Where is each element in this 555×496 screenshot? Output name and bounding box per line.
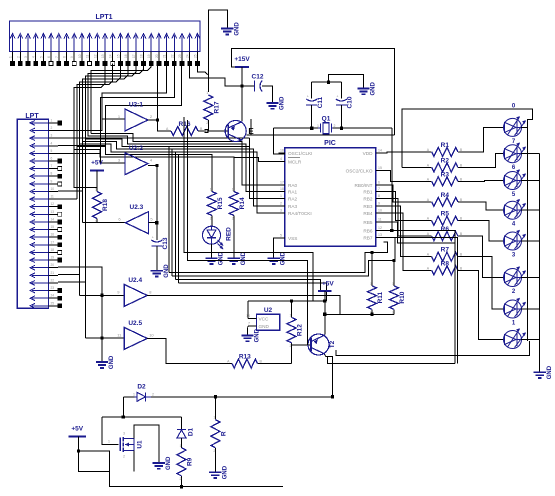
wire bus line to PIC RA0	[91, 134, 285, 185]
svg-text:T2: T2	[329, 340, 336, 348]
svg-text:1: 1	[232, 187, 234, 191]
wire LPT1 pin 15 staircase to left bundle	[80, 64, 121, 145]
svg-text:9: 9	[378, 201, 380, 205]
capacitor C12	[252, 74, 264, 92]
svg-text:7: 7	[55, 56, 59, 58]
ground for PIC VSS	[267, 251, 286, 265]
wire LED 6 cathode to rail B	[521, 277, 540, 279]
wire bus line to R14	[74, 149, 234, 176]
wire +5V rect loop	[79, 451, 110, 471]
svg-text:7: 7	[248, 322, 250, 326]
ground for U1	[153, 456, 172, 470]
svg-text:2: 2	[152, 393, 154, 397]
svg-text:22: 22	[170, 54, 174, 58]
svg-text:13: 13	[51, 210, 55, 214]
junction +5V/R10R11 rail	[323, 313, 326, 316]
svg-text:2: 2	[206, 121, 208, 125]
svg-text:1: 1	[213, 416, 215, 420]
wire band branch 4 down to under-PIC bundle	[178, 155, 180, 284]
resistor R17	[204, 91, 221, 131]
svg-text:GND: GND	[234, 22, 240, 36]
svg-text:R17: R17	[214, 101, 221, 113]
wire bus line to PIC RA2	[85, 139, 284, 199]
svg-text:U2: U2	[264, 307, 273, 314]
svg-text:2: 2	[123, 455, 125, 459]
svg-text:1: 1	[280, 194, 282, 198]
wire LPT1 pin 20 down to U2:1 output node	[157, 64, 159, 120]
svg-text:2: 2	[213, 449, 215, 453]
wire U2:1 output	[148, 119, 158, 121]
resistor R5	[427, 211, 463, 226]
junction C10 bottom	[340, 127, 343, 130]
junction emitter/bottom wire	[331, 395, 334, 398]
svg-text:25: 25	[51, 301, 55, 305]
wire E rail above PIC	[247, 134, 395, 136]
svg-text:R11: R11	[377, 291, 384, 303]
svg-text:4: 4	[51, 141, 53, 145]
ground for R14	[228, 251, 247, 265]
svg-text:R10: R10	[399, 291, 406, 303]
svg-text:GND: GND	[280, 96, 286, 110]
svg-text:24: 24	[51, 294, 55, 298]
wire RB7 down right rail	[383, 238, 457, 364]
wire PIC RB1 to R5	[383, 191, 429, 220]
svg-text:R: R	[221, 431, 228, 436]
wire loop C under PIC to +5V stem	[175, 280, 320, 291]
svg-text:4: 4	[32, 56, 36, 58]
svg-text:RB5: RB5	[363, 220, 373, 225]
wire LPT pin 3 bus	[58, 137, 250, 139]
resistor R2	[427, 158, 463, 173]
power +15V	[234, 56, 250, 67]
svg-text:2: 2	[232, 216, 234, 220]
power block U2	[246, 307, 280, 330]
resistor R7	[427, 247, 463, 262]
junction D2 drop	[122, 415, 125, 418]
svg-text:1: 1	[133, 393, 135, 397]
wire base of T1	[206, 130, 228, 132]
wire VCC rail	[248, 300, 325, 302]
wire R1 to LED 1	[460, 127, 504, 152]
diode D2	[133, 384, 154, 402]
wire U2:2 column lower	[99, 153, 101, 163]
crystal Q1	[317, 116, 336, 134]
wire LPT pin 11 into bundle	[58, 198, 77, 200]
svg-text:17: 17	[132, 54, 136, 58]
wire crystal rail left	[274, 127, 319, 129]
svg-text:R16: R16	[179, 121, 191, 128]
svg-text:R8: R8	[441, 260, 450, 267]
wire LPT pin 5 into U2:2 column	[58, 152, 100, 154]
svg-text:23: 23	[51, 286, 55, 290]
junction R10 top	[392, 259, 395, 262]
wire U2:2 output	[148, 165, 157, 167]
svg-text:1: 1	[51, 118, 53, 122]
wire cap tops to ground	[329, 75, 364, 89]
svg-text:10: 10	[378, 209, 382, 213]
resistor R16	[166, 121, 204, 136]
wire R5 to LED 5	[460, 221, 504, 241]
wire R4 to LED 4	[460, 202, 504, 210]
svg-text:RB0/INT: RB0/INT	[355, 183, 373, 188]
svg-text:+5V: +5V	[91, 160, 103, 167]
wire D1 riser	[181, 417, 183, 429]
svg-text:14: 14	[109, 54, 113, 58]
wire R10/R11 bottoms to +5V	[325, 313, 394, 315]
wire LED rail B down to ground	[539, 154, 541, 373]
ground top middle	[221, 22, 240, 36]
svg-text:RA4/T0CKI: RA4/T0CKI	[288, 211, 312, 216]
resistor R8	[427, 260, 463, 275]
wire R6 to LED 6	[460, 236, 504, 277]
wire band branch 2 down to under-PIC bundle	[171, 149, 173, 276]
svg-text:24: 24	[186, 54, 190, 58]
wire PIC VDD to R1	[383, 152, 429, 153]
wire LPT pin 10 to U2:3	[58, 190, 83, 192]
junction +15V / C12	[240, 84, 243, 87]
svg-text:+: +	[336, 95, 338, 99]
wire LPT1 pin 13 staircase to left bundle	[74, 64, 105, 150]
connector LPT	[17, 113, 61, 308]
svg-text:16: 16	[280, 149, 284, 153]
svg-text:20: 20	[51, 263, 55, 267]
svg-text:LPT1: LPT1	[95, 14, 112, 21]
wire MCLR connection	[234, 157, 285, 161]
wire emitter rail lower	[328, 357, 455, 363]
svg-text:3: 3	[123, 432, 125, 436]
svg-text:3: 3	[24, 56, 28, 58]
svg-text:14: 14	[378, 149, 382, 153]
capacitor C10	[336, 95, 354, 109]
ground for C10/C11	[357, 82, 376, 96]
wire U1 top loop	[102, 416, 182, 418]
svg-text:R18: R18	[102, 199, 109, 211]
wire LPT1 pin 18 staircase to left bundle	[88, 64, 143, 137]
svg-text:6: 6	[51, 157, 53, 161]
wire bus line to PIC RA4	[80, 144, 285, 213]
svg-text:8: 8	[378, 194, 380, 198]
svg-text:16: 16	[51, 233, 55, 237]
wire C10 bottom lead	[340, 105, 342, 128]
wire R7 to LED 7	[460, 257, 504, 309]
svg-text:R13: R13	[239, 354, 251, 361]
wire U2:2 out down to C13	[156, 166, 158, 241]
op-amp U2:3	[118, 204, 153, 234]
LED D8 indicator 5	[504, 230, 526, 259]
wire LPT pin 20 down to ground	[58, 267, 102, 362]
svg-text:2: 2	[51, 126, 53, 130]
svg-text:21: 21	[163, 54, 167, 58]
svg-text:5: 5	[280, 234, 282, 238]
wire R8 to LED 8	[460, 270, 504, 339]
svg-text:RED: RED	[226, 227, 233, 241]
wire +15V rail across top	[231, 48, 394, 135]
svg-text:U2.3: U2.3	[130, 204, 144, 211]
svg-text:U2.4: U2.4	[128, 277, 142, 284]
svg-text:2: 2	[392, 310, 394, 314]
svg-text:R15: R15	[217, 197, 224, 209]
diode D1	[177, 427, 195, 437]
junction U2:5 input crossing	[100, 336, 103, 339]
svg-text:21: 21	[51, 271, 55, 275]
svg-text:GND: GND	[281, 251, 287, 265]
op-amp U2:4	[117, 277, 152, 307]
resistor R4	[427, 192, 463, 207]
wire crystal rail right	[333, 127, 392, 129]
wire loop D under PIC to VCC rail	[179, 283, 327, 301]
svg-text:13: 13	[378, 233, 382, 237]
wire D2 left down to U1 loop	[122, 397, 124, 417]
svg-text:R12: R12	[297, 324, 304, 336]
wire bundle vertical to U2:3 output	[82, 142, 84, 223]
wire U2 GND pin to ground	[247, 326, 249, 336]
wire LPT1 pin 16 staircase to left bundle	[83, 64, 129, 142]
junction R16/R17/T1 base (open)	[205, 130, 208, 133]
op-amp U2:1	[118, 102, 153, 132]
svg-text:GND: GND	[241, 251, 247, 265]
wire LPT pin 2 to U2:1 input	[58, 119, 102, 130]
svg-text:12: 12	[93, 54, 97, 58]
wire LED 2 cathode to rail B	[521, 153, 540, 155]
wire LPT pin 21 to U2:4 input	[58, 274, 80, 276]
wire LPT1 pin 22 loop to U2:2 input column	[100, 64, 174, 154]
svg-text:+15V: +15V	[234, 56, 250, 63]
wire LPT pin 22 to U2:5 input	[58, 281, 85, 283]
wire between cap tops	[312, 81, 342, 83]
wire LPT1 pin 25 to R17 column	[197, 64, 208, 93]
wire U2:5 output to R13 rail	[147, 339, 226, 364]
capacitor C11	[306, 95, 324, 109]
svg-text:18: 18	[140, 54, 144, 58]
wire loop B under PIC to R10 riser	[172, 238, 395, 277]
wire LED 1 cathode to rail A	[521, 126, 528, 128]
wire C12 right to ground	[262, 86, 273, 103]
svg-text:19: 19	[147, 54, 151, 58]
wire LPT1 pin 24 loop toward C12	[190, 64, 242, 87]
junction U2:1 output	[156, 118, 159, 121]
wire R13 to base node	[291, 345, 293, 364]
ground for C13	[151, 264, 170, 278]
wire under-PIC run 2	[188, 120, 308, 345]
svg-text:RB4: RB4	[363, 211, 373, 216]
connector LPT1	[9, 14, 200, 66]
svg-text:D1: D1	[188, 427, 195, 436]
LED D11 indicator 8	[504, 328, 526, 348]
svg-text:16: 16	[124, 54, 128, 58]
wire LED 8 cathode to rail B	[521, 339, 540, 341]
svg-text:R3: R3	[441, 171, 450, 178]
LED D6 indicator 3	[504, 169, 526, 198]
wire LED 4 cathode to rail B	[521, 209, 540, 211]
ground for C12	[266, 96, 285, 110]
svg-text:GND: GND	[219, 251, 225, 265]
junction R11 bottom	[370, 313, 373, 316]
junction +5V loop	[77, 450, 80, 453]
wire LPT1 pin 14 staircase to left bundle	[77, 64, 113, 147]
power +5V for R18	[90, 160, 104, 171]
op-amp U2:2	[118, 145, 153, 175]
resistor R1	[427, 142, 463, 157]
wire PIC RB4 to R8	[383, 213, 429, 270]
wire U2:2 input	[100, 162, 125, 164]
svg-text:RB7: RB7	[363, 236, 373, 241]
LED D4 indicator 1	[504, 116, 526, 145]
svg-text:MCLR: MCLR	[288, 160, 302, 165]
svg-text:12: 12	[378, 226, 382, 230]
wire LPT1 pin 19 staircase to left bundle	[91, 64, 151, 134]
svg-text:R14: R14	[239, 197, 246, 209]
wire PIC RB3 to R7	[383, 206, 429, 257]
resistor R12	[287, 301, 304, 348]
wire bundle vertical to U2:5 input	[84, 139, 86, 338]
svg-text:R2: R2	[441, 158, 450, 165]
wire R3 to LED 3	[460, 180, 504, 183]
wire U2:3 input to node	[148, 222, 156, 224]
svg-text:2: 2	[180, 477, 182, 481]
svg-text:17: 17	[280, 180, 284, 184]
svg-text:RB6: RB6	[363, 228, 373, 233]
svg-text:5: 5	[51, 149, 53, 153]
wire bottom long rail	[123, 396, 332, 398]
svg-text:11: 11	[378, 217, 382, 221]
resistor R9	[177, 438, 194, 487]
svg-text:10: 10	[78, 54, 82, 58]
wire pin3 bus extension step	[249, 138, 251, 146]
svg-text:10: 10	[149, 332, 154, 337]
LED D7 indicator 4	[504, 199, 526, 228]
svg-text:C13: C13	[162, 237, 169, 249]
svg-text:20: 20	[155, 54, 159, 58]
svg-text:11: 11	[86, 54, 90, 58]
wire RB6 node up to crystal rail	[391, 128, 393, 230]
resistor R15	[207, 176, 224, 226]
junction R top	[214, 395, 217, 398]
resistor R6	[427, 226, 463, 241]
wire +15V bar to transistor collector	[241, 67, 243, 121]
wire T2 base	[292, 344, 312, 346]
junction C11 bottom	[310, 127, 313, 130]
regulator U1	[108, 432, 144, 459]
ground for LED column	[534, 365, 553, 379]
wire C13 to ground	[156, 246, 158, 271]
wire PIC RB0 to R4	[383, 185, 429, 202]
wire band branch 3 down to under-PIC bundle	[174, 152, 176, 280]
ground under U2:5	[96, 355, 115, 369]
wire U2:4 input run	[80, 294, 125, 296]
wire band branch 1 down to under-PIC bundle	[168, 147, 170, 273]
svg-text:18: 18	[51, 248, 55, 252]
svg-text:22: 22	[51, 278, 55, 282]
svg-text:23: 23	[178, 54, 182, 58]
svg-text:8: 8	[63, 56, 67, 58]
wire C12 left lead	[242, 85, 254, 87]
svg-text:1: 1	[210, 187, 212, 191]
svg-text:2: 2	[210, 216, 212, 220]
resistor R3	[427, 171, 463, 186]
svg-text:C12: C12	[252, 74, 264, 81]
svg-text:2: 2	[334, 124, 336, 128]
wire under-PIC run 1	[184, 117, 313, 301]
svg-text:RA2: RA2	[288, 196, 298, 201]
svg-text:GND: GND	[166, 456, 172, 470]
svg-text:OSC2/CLKO: OSC2/CLKO	[346, 168, 373, 173]
svg-text:Q1: Q1	[322, 116, 331, 123]
microcontroller PIC U3	[278, 140, 383, 246]
junction +5V/VCC rail	[323, 299, 326, 302]
svg-text:19: 19	[51, 256, 55, 260]
svg-text:1: 1	[108, 440, 110, 444]
svg-text:GND: GND	[255, 328, 261, 342]
wire LPT1 pin 21 loop to U2:1 input column	[102, 64, 167, 120]
resistor R	[211, 397, 228, 473]
svg-text:1: 1	[317, 124, 319, 128]
svg-text:8: 8	[51, 172, 53, 176]
resistor R18	[93, 171, 110, 224]
svg-text:11: 11	[51, 195, 55, 199]
wire +5V stem	[78, 437, 80, 452]
svg-text:GND: GND	[109, 355, 115, 369]
svg-text:R1: R1	[441, 142, 450, 149]
junction R11 top	[370, 251, 373, 254]
junction U2:2 output	[155, 164, 158, 167]
svg-text:RB3: RB3	[363, 204, 373, 209]
wire bus line to R15	[77, 147, 212, 176]
svg-text:10: 10	[51, 187, 55, 191]
wire OSC1 connection	[274, 128, 285, 154]
wire T2 emitter down	[325, 355, 333, 397]
svg-text:U1: U1	[137, 440, 144, 449]
svg-text:+5V: +5V	[71, 426, 83, 433]
svg-text:14: 14	[51, 218, 55, 222]
wire U1 source down	[133, 451, 135, 472]
svg-text:GND: GND	[164, 264, 170, 278]
svg-text:15: 15	[51, 225, 55, 229]
svg-text:GND: GND	[222, 465, 228, 479]
op-amp U2:5	[117, 320, 154, 350]
svg-text:U2:1: U2:1	[129, 102, 143, 109]
svg-text:7: 7	[51, 164, 53, 168]
svg-text:5: 5	[39, 56, 43, 58]
transistor T1	[225, 121, 246, 142]
svg-text:OSC1/CLKI: OSC1/CLKI	[288, 151, 313, 156]
svg-text:VSS: VSS	[288, 236, 297, 241]
wire PIC RB2 to R6	[383, 198, 429, 236]
svg-text:1: 1	[290, 313, 292, 317]
svg-text:GND: GND	[547, 365, 553, 379]
svg-text:R7: R7	[441, 247, 450, 254]
wire rail to R2	[402, 167, 430, 169]
wire C11 bottom lead	[311, 105, 313, 128]
ground for R	[209, 465, 228, 479]
wire U2:5 input run	[85, 337, 124, 339]
wire PIC OSC2 to R3	[383, 170, 429, 181]
svg-text:2: 2	[280, 201, 282, 205]
transistor T2	[308, 334, 336, 355]
wire LED 5 cathode to rail B	[521, 240, 540, 242]
svg-text:1: 1	[392, 282, 394, 286]
power +5V bottom left	[68, 426, 86, 437]
svg-text:GND: GND	[259, 324, 270, 329]
svg-text:RB2: RB2	[363, 196, 373, 201]
svg-text:15: 15	[378, 166, 382, 170]
wire loop to bottom rail	[109, 471, 282, 486]
ground for RED LED	[205, 251, 224, 265]
wire LPT1 pin 17 staircase to left bundle	[85, 64, 136, 139]
capacitor C13	[151, 236, 169, 250]
wire emitter rail upper	[336, 341, 530, 355]
resistor R13	[226, 354, 292, 369]
svg-text:25: 25	[193, 54, 197, 58]
